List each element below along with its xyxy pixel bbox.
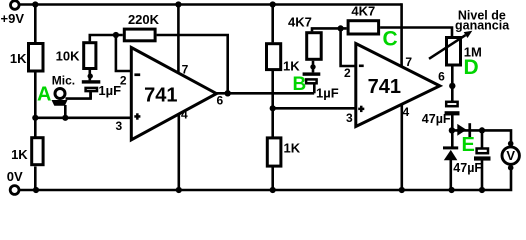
junction dots bottom rail	[33, 187, 39, 193]
svg-text:2: 2	[344, 66, 351, 80]
svg-text:1K: 1K	[11, 147, 28, 162]
node dot feedback U2	[338, 25, 344, 31]
svg-text:V: V	[506, 148, 515, 163]
wire C2 bottom stem	[313, 84, 316, 93]
voltmeter V	[502, 147, 519, 164]
op-amp U1 741	[131, 48, 216, 140]
capacitor C1 1uF plus plate	[82, 80, 101, 83]
resistor R4 220K	[124, 29, 155, 41]
capacitor C4 47uF minus plate	[477, 149, 488, 154]
minus sign U1	[134, 73, 140, 76]
capacitor C2 1uF plus plate	[303, 72, 321, 75]
wire 220K right to output node	[157, 35, 228, 93]
plus sign U2	[358, 108, 364, 111]
svg-text:3: 3	[346, 111, 353, 125]
wire 4K7a bottom stem	[312, 61, 315, 73]
capacitor C3 47uF plus plate	[445, 111, 460, 115]
wire C4 stem	[481, 130, 484, 148]
svg-text:220K: 220K	[128, 12, 160, 27]
svg-text:1K: 1K	[283, 59, 300, 74]
plus sign U1	[134, 115, 140, 118]
node dot output U2	[449, 83, 455, 89]
wire pin7 U1	[177, 5, 180, 74]
svg-text:+9V: +9V	[1, 11, 25, 26]
op-amp U2 741	[356, 44, 440, 127]
node junction pin3 U2	[270, 105, 276, 111]
node dot 220K/10K	[113, 32, 119, 38]
svg-text:741: 741	[368, 76, 401, 98]
capacitor C2 1uF minus plate	[306, 79, 317, 83]
svg-text:1K: 1K	[10, 51, 27, 66]
node dot 10K/C1	[88, 73, 93, 78]
wire bottom 0V rail	[20, 167, 512, 191]
svg-text:47µF: 47µF	[453, 161, 482, 175]
wire C3 to node E	[451, 115, 454, 147]
wire C1 bottom stem	[89, 92, 92, 99]
terminal +9V	[11, 1, 20, 10]
svg-text:1µF: 1µF	[98, 83, 121, 98]
svg-text:E: E	[462, 134, 475, 156]
svg-text:ganancia: ganancia	[455, 18, 510, 32]
microphone M1	[55, 89, 65, 99]
resistor R5 1K mid-top	[267, 44, 281, 70]
node dot 4K7/C2	[310, 64, 315, 69]
capacitor C3 47uF minus plate	[446, 102, 457, 106]
resistor R3 10K	[84, 43, 96, 69]
svg-text:7: 7	[182, 63, 189, 77]
resistor R6 1K mid-bottom	[267, 138, 281, 166]
svg-text:6: 6	[438, 69, 445, 83]
svg-text:10K: 10K	[56, 49, 80, 64]
svg-text:A: A	[37, 84, 51, 106]
svg-text:7: 7	[405, 55, 412, 69]
wire top +9V rail	[20, 3, 402, 6]
svg-text:47µF: 47µF	[422, 112, 451, 126]
svg-text:4K7: 4K7	[288, 14, 312, 29]
svg-text:C: C	[383, 27, 398, 50]
wire node to pin2 U2	[341, 28, 356, 66]
svg-text:4: 4	[402, 105, 409, 119]
diode D2 shunt	[443, 146, 458, 149]
wire 1M bottom / output node D / to C3	[451, 65, 454, 101]
svg-text:B: B	[293, 74, 307, 95]
wire node E horizontal to voltmeter	[452, 130, 511, 144]
wire diode D2 to ground	[449, 159, 452, 190]
wire 4K7a top jog to node	[312, 28, 347, 31]
wire mic stem	[64, 105, 67, 118]
node dot C4 junction	[479, 127, 485, 133]
wire node to pin2 U1	[116, 35, 131, 71]
wire pin3 U2 input	[273, 107, 356, 110]
wire 10K top jog to node	[90, 35, 123, 41]
node dot output U1	[225, 90, 231, 96]
capacitor C4 47uF plus plate	[474, 156, 491, 160]
junction dots top rail	[32, 1, 38, 7]
svg-text:Mic.: Mic.	[52, 74, 75, 88]
svg-text:1K: 1K	[284, 141, 301, 156]
wire left bias column	[34, 5, 37, 43]
wire pin3 U1 input	[35, 117, 131, 120]
capacitor C1 1uF minus plate	[86, 88, 97, 91]
wire V+ to pin7 op-amp U2	[400, 3, 403, 67]
svg-text:1µF: 1µF	[316, 86, 339, 101]
wire pin4 U2	[400, 103, 403, 190]
svg-text:0V: 0V	[7, 169, 23, 184]
diode D1 series	[457, 124, 466, 136]
wire 10K bottom to C1	[89, 70, 92, 80]
svg-text:D: D	[464, 56, 479, 79]
wire mid bias column	[271, 5, 274, 43]
svg-text:2: 2	[120, 74, 127, 88]
node dot E junction	[449, 127, 455, 133]
svg-text:3: 3	[115, 119, 122, 133]
resistor R7 4K7 vertical	[307, 33, 322, 60]
terminal 0V	[10, 186, 19, 195]
resistor R2 1K bottom-left	[32, 138, 43, 165]
wire pin4 U1	[178, 114, 181, 190]
wire 4K7b right to 1M pot	[380, 28, 452, 37]
svg-text:4: 4	[181, 107, 188, 121]
wire U1 output to C2	[217, 92, 315, 95]
wire mic to C1	[66, 92, 91, 99]
potentiometer 1M	[447, 38, 461, 66]
node junction pin3 U1	[32, 115, 38, 121]
svg-text:4K7: 4K7	[351, 4, 375, 19]
resistor R1 1K top-left	[29, 44, 44, 72]
minus sign U2	[359, 65, 364, 68]
svg-text:741: 741	[144, 84, 177, 106]
resistor R8 4K7 horizontal	[348, 21, 379, 34]
svg-text:6: 6	[216, 94, 223, 108]
